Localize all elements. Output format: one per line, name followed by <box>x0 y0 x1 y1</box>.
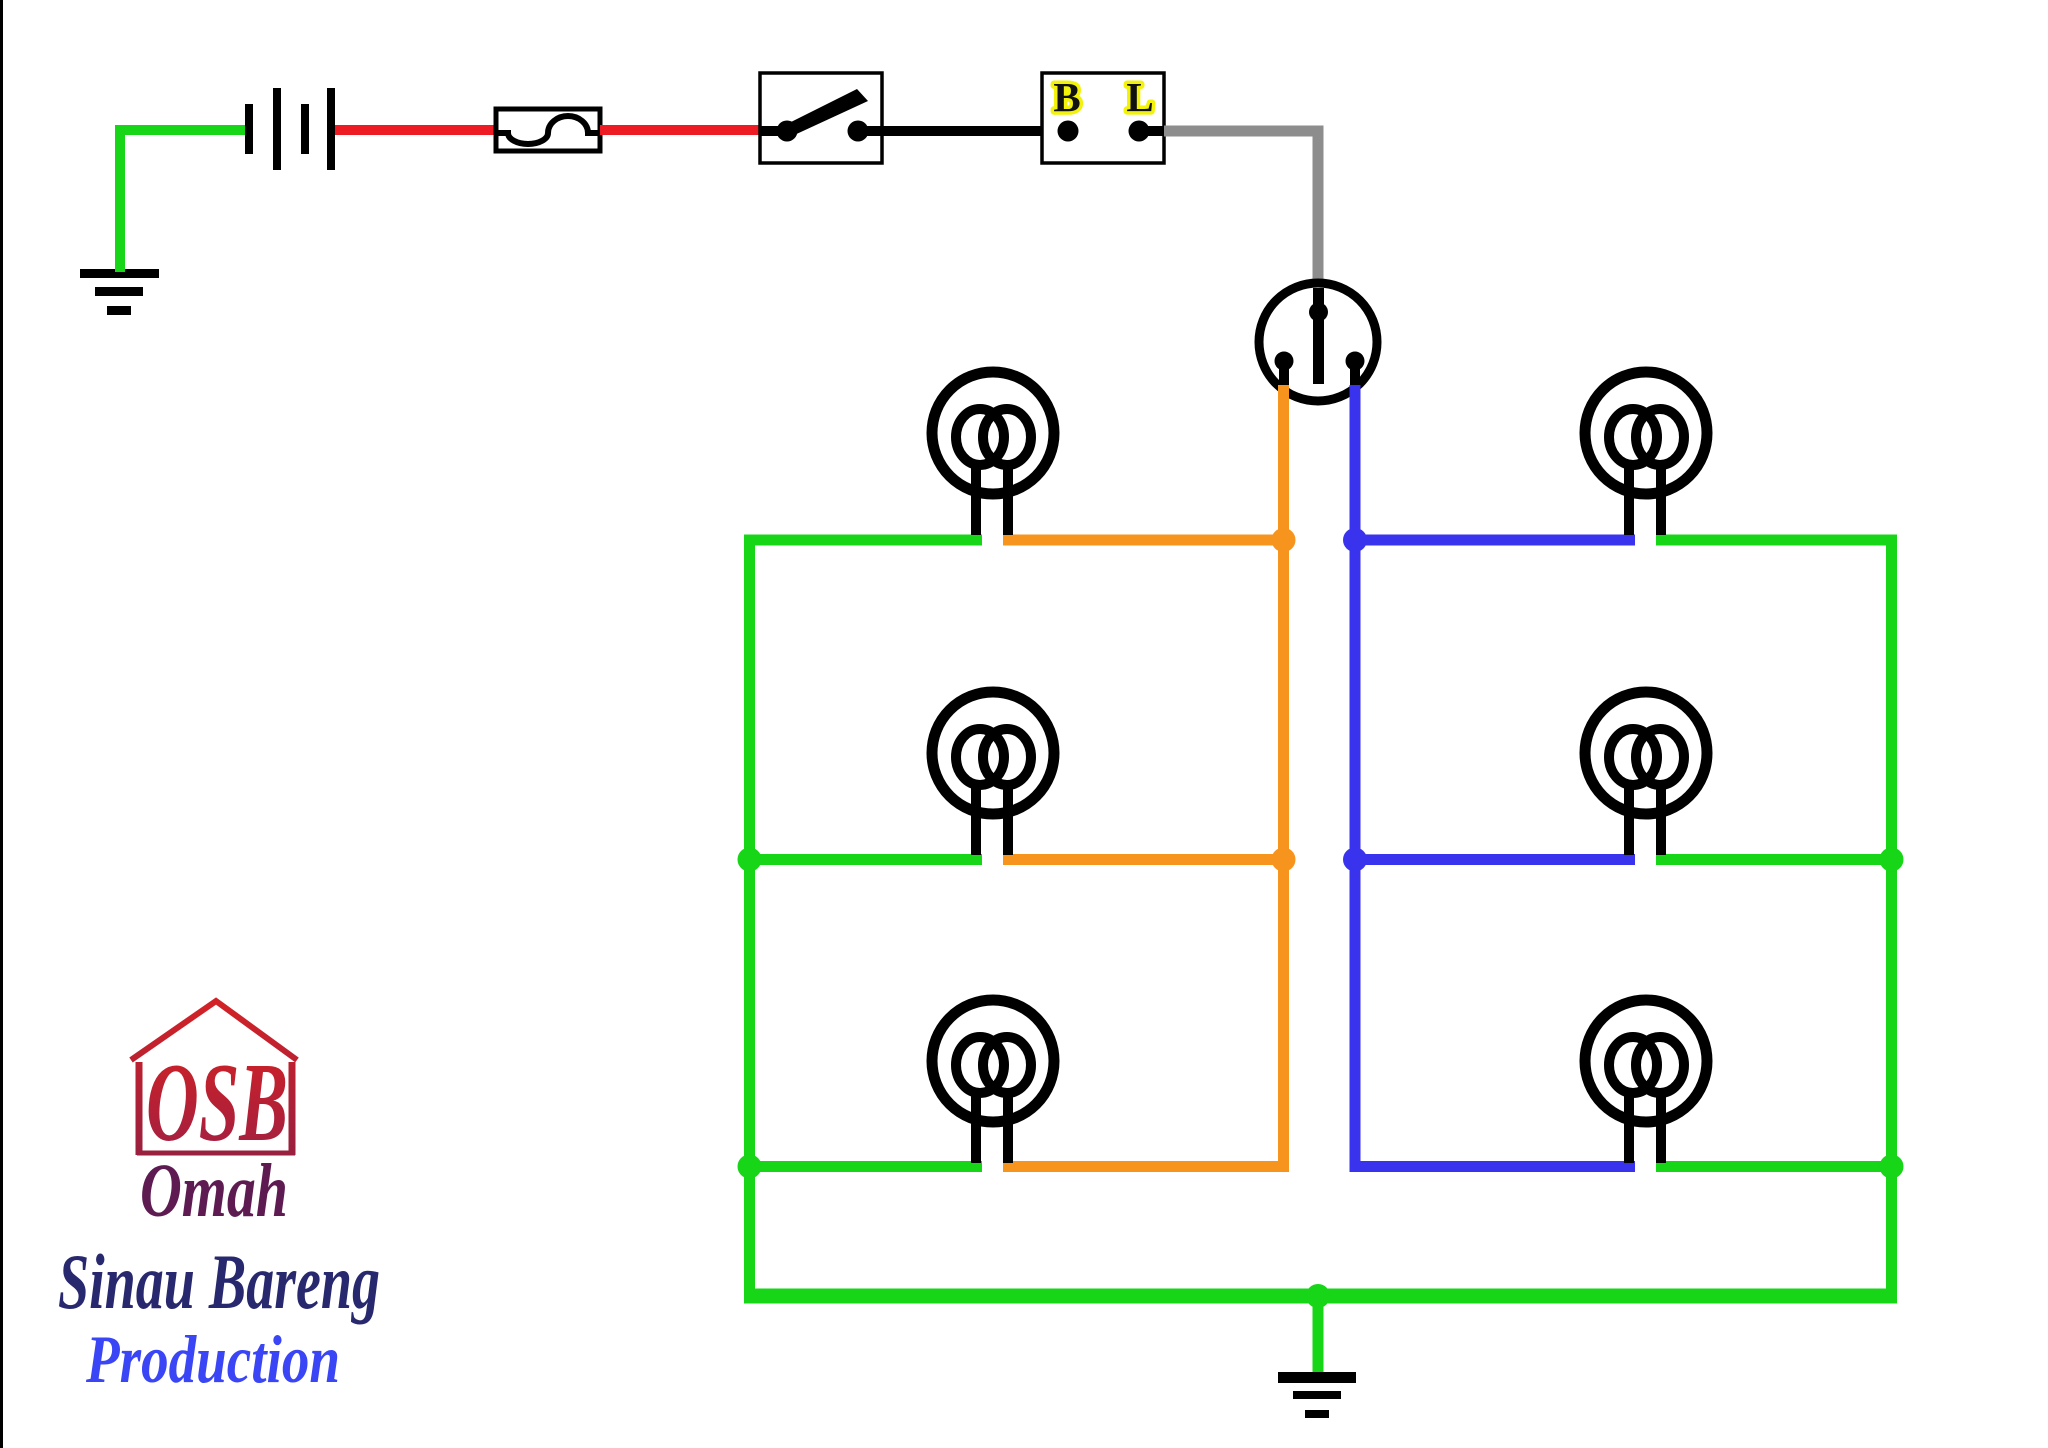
svg-text:Sinau Bareng: Sinau Bareng <box>58 1238 380 1325</box>
center contact bar <box>1313 288 1324 384</box>
house left wall <box>136 1062 143 1155</box>
junction dot green bottom center <box>1306 1284 1330 1308</box>
wire green row3 left <box>750 1161 983 1172</box>
house right wall <box>289 1062 296 1155</box>
turn signal switch SW1 (rotary, circle) <box>1259 283 1377 401</box>
junction dot green row2 right <box>1880 848 1904 872</box>
wire blue row2 <box>1355 854 1635 865</box>
wire green bottom (thicker) <box>744 1289 1897 1304</box>
wire green row2 left <box>750 854 983 865</box>
lamp R1 (right row1) <box>1585 372 1707 535</box>
wire orange row1 <box>1003 535 1284 546</box>
fuse F1 <box>496 109 600 151</box>
battery BAT1 <box>245 88 335 170</box>
logo OSB house <box>58 1001 380 1397</box>
wire black: switch to flasher unit <box>858 126 1068 136</box>
wire green row3 right <box>1656 1161 1892 1172</box>
wire green stub to bottom ground <box>1313 1296 1324 1374</box>
switch lever <box>783 89 868 137</box>
junction dot orange row2 <box>1272 848 1296 872</box>
switch pole dot left <box>777 121 798 142</box>
terminal dot B <box>1058 121 1079 142</box>
flasher unit U1 (B / L) <box>1042 73 1164 163</box>
stub from L to box edge <box>1139 126 1164 136</box>
junction dot green row2 left <box>738 848 762 872</box>
wire blue row1 <box>1355 535 1635 546</box>
junction dot blue row1 <box>1343 528 1367 552</box>
left page border <box>0 0 3 1448</box>
svg-text:Omah: Omah <box>140 1149 288 1233</box>
right pin (to right lamps) <box>1346 352 1365 371</box>
wire green: battery negative to ground <box>120 130 245 272</box>
wire gray: flasher unit to turn-signal switch <box>1164 131 1318 293</box>
wire blue: right feed vertical + row3 <box>1355 385 1635 1167</box>
svg-text:OSB: OSB <box>146 1041 288 1165</box>
house roof <box>131 1001 297 1060</box>
switch pole dot right <box>848 121 869 142</box>
wire red: battery to fuse <box>335 125 498 135</box>
wire green: ground return loop (left rail, bottom, right rail, row1 halves) <box>750 540 1892 1296</box>
ground (bottom center) <box>1278 1372 1356 1418</box>
junction dot orange row1 <box>1272 528 1296 552</box>
lamp R2 (right row2) <box>1585 692 1707 855</box>
wire green row2 right <box>1656 854 1892 865</box>
svg-text:Production: Production <box>85 1321 340 1397</box>
svg-text:L: L <box>1126 74 1153 120</box>
center contact dot <box>1309 303 1328 322</box>
left pin (to left lamps) <box>1275 352 1294 371</box>
lamp L3 (left row3) <box>932 1000 1054 1163</box>
house base <box>137 1151 295 1156</box>
wire orange: left feed vertical + row3 <box>1003 385 1284 1167</box>
terminal dot L <box>1129 121 1150 142</box>
svg-text:B: B <box>1053 74 1080 120</box>
junction dot blue row2 <box>1343 848 1367 872</box>
junction dot green row3 left <box>738 1155 762 1179</box>
wire red: fuse to switch <box>600 125 762 135</box>
lamp R3 (right row3) <box>1585 1000 1707 1163</box>
switch stub wire <box>760 126 790 136</box>
ground (battery negative, top-left) <box>80 269 159 315</box>
lamp L1 (left row1) <box>932 372 1054 535</box>
wire orange row2 <box>1003 854 1284 865</box>
junction dot green row3 right <box>1880 1155 1904 1179</box>
switch S1 (key switch) <box>760 73 882 163</box>
lamp L2 (left row2) <box>932 692 1054 855</box>
